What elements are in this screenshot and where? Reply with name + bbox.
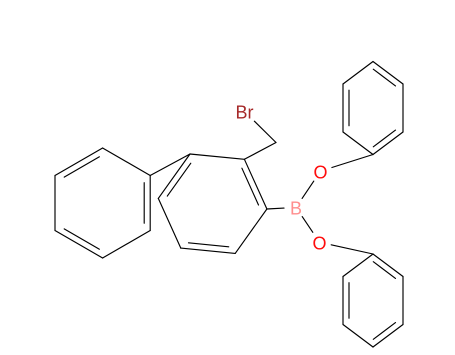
bond ring to CH2 xyxy=(244,143,276,160)
top phenyl double bond 3 xyxy=(373,130,395,147)
bond ring to B xyxy=(267,207,284,210)
central ring double bond 3 xyxy=(167,163,191,196)
svg-text:O: O xyxy=(312,233,326,253)
left benzene ring edge 0 xyxy=(103,148,151,176)
bottom phenyl double bond 2 xyxy=(373,262,395,279)
bottom phenyl double bond 1 xyxy=(348,283,350,319)
central ring double bond 2 xyxy=(189,243,229,247)
svg-text:O: O xyxy=(313,162,327,182)
left benzene ring edge 1 xyxy=(149,176,151,231)
central benzene ring edge 4 xyxy=(190,154,244,159)
top right phenyl ring edge 1 xyxy=(402,84,404,132)
bottom right phenyl ring edge 3 xyxy=(343,325,373,348)
left benzene ring edge 3 xyxy=(55,231,103,259)
left ring double bond 2 xyxy=(143,183,145,224)
central benzene ring edge 0 xyxy=(235,209,267,253)
bottom phenyl double bond 3 xyxy=(373,323,395,340)
bottom right phenyl ring edge 5 xyxy=(343,254,373,277)
left benzene ring edge 2 xyxy=(103,231,151,259)
bond B to O bottom xyxy=(302,217,313,233)
central benzene ring edge 1 xyxy=(181,248,235,253)
top right phenyl ring edge 3 xyxy=(343,132,373,155)
left ring double bond 3 xyxy=(64,229,99,249)
bottom right phenyl ring edge 4 xyxy=(342,277,344,325)
bottom right phenyl ring edge 1 xyxy=(402,277,404,325)
top right phenyl ring edge 2 xyxy=(373,132,403,155)
central benzene ring edge 3 xyxy=(158,154,190,198)
central ring double bond 1 xyxy=(242,168,259,205)
top right phenyl ring edge 4 xyxy=(342,84,344,132)
bond O top to phenyl xyxy=(332,155,373,168)
bottom right phenyl ring edge 2 xyxy=(373,325,403,348)
top phenyl double bond 2 xyxy=(373,69,395,86)
central benzene ring edge 5 xyxy=(244,159,267,209)
svg-text:B: B xyxy=(290,199,302,219)
top right phenyl ring edge 0 xyxy=(373,62,403,85)
bottom right phenyl ring edge 0 xyxy=(373,254,403,277)
bond O bottom to phenyl xyxy=(331,245,373,254)
bond CH2 to Br xyxy=(254,121,276,142)
top right phenyl ring edge 5 xyxy=(343,62,373,85)
left ring double bond 1 xyxy=(64,157,99,177)
left benzene ring edge 4 xyxy=(54,176,56,231)
svg-text:Br: Br xyxy=(236,103,254,123)
central benzene ring edge 2 xyxy=(158,198,181,248)
left benzene ring edge 5 xyxy=(55,148,103,176)
bond B to O top xyxy=(302,181,314,198)
top phenyl double bond 1 xyxy=(348,90,350,126)
biphenyl bond xyxy=(150,154,190,176)
